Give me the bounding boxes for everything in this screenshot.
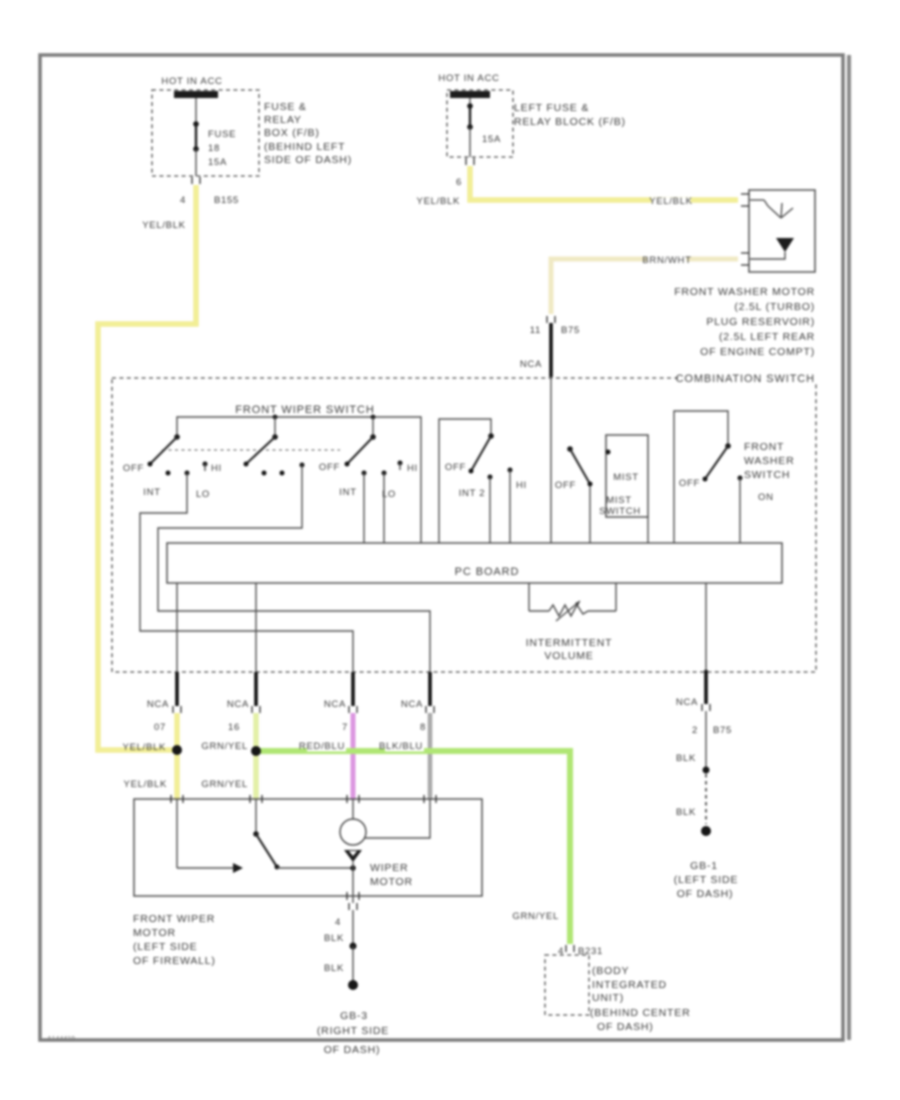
wire mist frame to PC board bbox=[647, 517, 649, 543]
svg-text:FUSE: FUSE bbox=[208, 129, 236, 140]
svg-text:LEFT FUSE &: LEFT FUSE & bbox=[514, 102, 589, 114]
washer OFF label bbox=[679, 478, 700, 489]
svg-text:YEL/BLK: YEL/BLK bbox=[123, 742, 166, 753]
connector at left fuse block bottom bbox=[466, 158, 474, 165]
svg-text:(LEFT SIDE: (LEFT SIDE bbox=[674, 874, 738, 886]
pole 3 INT label bbox=[339, 487, 356, 498]
svg-text:OF DASH): OF DASH) bbox=[324, 1044, 381, 1056]
footer diagram id bbox=[47, 1036, 75, 1043]
svg-text:6: 6 bbox=[456, 177, 462, 188]
svg-text:RELAY: RELAY bbox=[264, 114, 302, 126]
svg-text:B75: B75 bbox=[561, 325, 580, 336]
svg-text:NCA: NCA bbox=[227, 699, 249, 710]
wiper switch common bus wire bbox=[177, 415, 421, 543]
svg-text:(BEHIND LEFT: (BEHIND LEFT bbox=[264, 141, 345, 153]
svg-text:OFF: OFF bbox=[679, 478, 700, 489]
pin 6 label bbox=[456, 177, 462, 188]
pole 1 HI label bbox=[211, 463, 222, 474]
wire label YEL/BLK bbox=[417, 196, 460, 207]
pole 2 contacts bbox=[262, 463, 305, 476]
ground GB-1 text bbox=[674, 860, 738, 900]
svg-text:15A: 15A bbox=[208, 157, 227, 168]
body integrated unit dashed box bbox=[545, 955, 589, 1015]
wire 3 connector bbox=[349, 706, 357, 713]
wire 3 bold segment bbox=[351, 672, 355, 706]
wire 1 YEL/BLK segment bbox=[174, 713, 180, 750]
svg-text:(BODY: (BODY bbox=[592, 965, 629, 977]
svg-text:A144419: A144419 bbox=[47, 1036, 75, 1043]
svg-text:OF FIREWALL): OF FIREWALL) bbox=[133, 955, 216, 967]
ground GB-3 text bbox=[317, 1010, 389, 1056]
wiper switch gang dashed link bbox=[162, 449, 340, 451]
pin 4 connector B155 label bbox=[180, 195, 239, 206]
wire label YEL/BLK (mid) bbox=[649, 196, 692, 207]
body integrated unit text bbox=[590, 965, 690, 1033]
svg-text:2: 2 bbox=[692, 725, 698, 736]
wire 1 connector bbox=[173, 706, 181, 713]
wire 1 bold segment bbox=[175, 672, 179, 706]
svg-text:MIST: MIST bbox=[613, 472, 639, 483]
wire 2 bold segment bbox=[254, 672, 258, 706]
svg-text:4: 4 bbox=[180, 195, 186, 206]
pole 4 HI contact to PC board bbox=[508, 468, 513, 544]
label HOT IN ACC (left fuse block) bbox=[438, 73, 499, 84]
svg-text:LO: LO bbox=[196, 489, 210, 500]
pole 4 HI label bbox=[516, 480, 527, 491]
svg-text:(LEFT SIDE: (LEFT SIDE bbox=[133, 941, 197, 953]
wire label NCA (washer) bbox=[520, 359, 542, 370]
wire washer signal bold segment bbox=[549, 323, 553, 377]
PC board box bbox=[167, 543, 782, 583]
wiper motor bottom pin bbox=[347, 892, 359, 900]
wire 2 GRN/YEL to wiper motor bbox=[253, 751, 259, 800]
svg-text:B231: B231 bbox=[578, 946, 603, 957]
mist switch name text bbox=[599, 495, 641, 517]
svg-text:(2.5L LEFT REAR: (2.5L LEFT REAR bbox=[719, 331, 815, 343]
wiper motor M symbol bbox=[340, 799, 366, 896]
svg-text:OFF: OFF bbox=[445, 462, 466, 473]
wire 2 NCA label bbox=[227, 699, 249, 710]
wire washer signal into switch bbox=[550, 377, 552, 543]
svg-text:GRN/YEL: GRN/YEL bbox=[201, 741, 248, 752]
wire 2 label GRN/YEL bbox=[201, 741, 248, 752]
wire 4 label BLK/BLU bbox=[379, 741, 424, 752]
ground GB-3 bbox=[348, 980, 358, 990]
wiper motor pin 1 bbox=[171, 795, 183, 803]
wiper motor pin 4 bbox=[424, 795, 436, 803]
wiper switch pole 4 frame bbox=[439, 419, 491, 543]
svg-text:YEL/BLK: YEL/BLK bbox=[649, 196, 692, 207]
wire 3 pin 7 label bbox=[342, 722, 348, 733]
svg-text:ON: ON bbox=[758, 492, 774, 503]
svg-text:PC BOARD: PC BOARD bbox=[455, 566, 520, 578]
pole 3 OFF label bbox=[319, 462, 340, 473]
svg-text:NCA: NCA bbox=[676, 697, 698, 708]
wire 4 BLK/BLU segment bbox=[428, 713, 433, 800]
connector at fuse box bottom bbox=[192, 177, 200, 184]
wire 1 NCA label bbox=[147, 699, 169, 710]
intermittent volume potentiometer bbox=[529, 583, 616, 621]
wire mist blade to PC board bbox=[589, 486, 591, 543]
wire 1 from PC board (thin) bbox=[176, 583, 178, 672]
svg-text:WIPER: WIPER bbox=[370, 862, 408, 874]
pole 1 OFF label bbox=[123, 463, 144, 474]
svg-text:BLK/BLU: BLK/BLU bbox=[379, 741, 423, 752]
wire 2 GRN/YEL segment bbox=[253, 713, 259, 751]
GB-1 label BLK (2) bbox=[676, 807, 696, 818]
svg-text:OFF: OFF bbox=[123, 463, 144, 474]
svg-text:(BEHIND CENTER: (BEHIND CENTER bbox=[590, 1007, 690, 1019]
svg-text:(RIGHT SIDE: (RIGHT SIDE bbox=[317, 1025, 389, 1037]
wire 2 pin 16 label bbox=[228, 722, 240, 733]
wiper switch pole 1 blade bbox=[148, 434, 180, 466]
wire GRN to body integrated unit bbox=[256, 751, 570, 944]
svg-text:FRONT WASHER MOTOR: FRONT WASHER MOTOR bbox=[674, 286, 815, 298]
wire BLK segment 2 bbox=[352, 946, 354, 982]
wire BLK segment bbox=[352, 910, 354, 944]
svg-text:OFF: OFF bbox=[319, 462, 340, 473]
front wiper switch label bbox=[235, 404, 374, 416]
svg-text:GB-1: GB-1 bbox=[690, 860, 718, 872]
wire YEL/BLK from fuse F18 down left side to splice bbox=[98, 185, 196, 750]
GB-1 wire BLK segment bbox=[705, 711, 707, 768]
GB-1 label BLK bbox=[676, 753, 696, 764]
mist switch frame bbox=[606, 435, 649, 517]
svg-text:07: 07 bbox=[154, 722, 166, 733]
GB-1 NCA label bbox=[676, 697, 698, 708]
svg-text:NCA: NCA bbox=[324, 699, 346, 710]
svg-text:OF DASH): OF DASH) bbox=[677, 888, 734, 900]
svg-text:B155: B155 bbox=[214, 195, 239, 206]
pole 3 contacts bbox=[362, 461, 403, 476]
svg-text:OF DASH): OF DASH) bbox=[597, 1021, 654, 1033]
svg-text:BRN/WHT: BRN/WHT bbox=[642, 255, 691, 266]
combination switch label bbox=[676, 371, 818, 385]
svg-text:INTEGRATED: INTEGRATED bbox=[592, 979, 667, 991]
wire 4 connector bbox=[426, 706, 434, 713]
wire from pole2 contact to BLK/BLU wire bbox=[158, 465, 430, 672]
svg-text:BLK: BLK bbox=[324, 933, 344, 944]
svg-text:4: 4 bbox=[335, 917, 341, 928]
pole 3 LO label bbox=[382, 489, 396, 500]
svg-text:YEL/BLK: YEL/BLK bbox=[417, 196, 460, 207]
combination switch dashed outline bbox=[112, 378, 816, 672]
wiper motor label bbox=[370, 862, 413, 888]
intermittent volume label bbox=[526, 637, 613, 662]
wire pole3 INT contact to PC board bbox=[363, 473, 365, 543]
svg-text:INT: INT bbox=[143, 487, 160, 498]
label BLK bbox=[324, 933, 344, 944]
svg-text:HOT IN ACC: HOT IN ACC bbox=[438, 73, 499, 84]
fuse & relay box F/B dashed outline bbox=[152, 90, 259, 176]
pole 1 INT label bbox=[143, 487, 160, 498]
fuse value 15A label bbox=[482, 134, 501, 145]
svg-text:FRONT: FRONT bbox=[744, 441, 784, 453]
svg-text:7: 7 bbox=[342, 722, 348, 733]
wiper motor pin 2 bbox=[250, 795, 262, 803]
splice on wire 2 bbox=[251, 746, 261, 756]
svg-text:RELAY BLOCK (F/B): RELAY BLOCK (F/B) bbox=[514, 116, 626, 128]
fuse & relay box name text bbox=[264, 101, 352, 166]
wire 4 pin 8 label bbox=[420, 722, 426, 733]
label BLK (2) bbox=[324, 963, 344, 974]
svg-text:15A: 15A bbox=[482, 134, 501, 145]
wire 1 label YEL/BLK (2) bbox=[124, 779, 167, 790]
svg-text:OF ENGINE COMPT): OF ENGINE COMPT) bbox=[700, 346, 815, 358]
svg-text:(2.5L (TURBO): (2.5L (TURBO) bbox=[734, 301, 815, 313]
svg-text:HI: HI bbox=[516, 480, 527, 491]
svg-text:FUSE &: FUSE & bbox=[264, 101, 307, 113]
front washer switch frame bbox=[674, 411, 728, 543]
wire pole3 LO contact to PC board bbox=[383, 473, 385, 543]
splice on BLK wire bbox=[350, 943, 357, 950]
wire 1 label YEL/BLK bbox=[123, 742, 166, 753]
svg-text:8: 8 bbox=[420, 722, 426, 733]
park switch blade bbox=[253, 799, 279, 870]
svg-text:SIDE OF DASH): SIDE OF DASH) bbox=[264, 154, 352, 166]
wire 3 NCA label bbox=[324, 699, 346, 710]
pole 4 OFF label bbox=[445, 462, 466, 473]
svg-text:INTERMITTENT: INTERMITTENT bbox=[526, 637, 613, 649]
front washer switch blade bbox=[703, 443, 731, 481]
connector below wiper motor bbox=[349, 903, 357, 910]
fuse F18 value label bbox=[208, 129, 236, 168]
PC board label bbox=[455, 566, 520, 578]
front washer motor box bbox=[749, 190, 815, 272]
svg-text:UNIT): UNIT) bbox=[592, 992, 624, 1004]
wire 2 connector bbox=[252, 706, 260, 713]
mist switch blade bbox=[567, 446, 592, 486]
wiper motor internal link wire bbox=[365, 799, 430, 838]
GB-1 wire from PC board (thin) bbox=[705, 583, 707, 670]
svg-text:MIST: MIST bbox=[606, 495, 632, 506]
wire 4 NCA label bbox=[401, 699, 423, 710]
hot bus bar 2 bbox=[450, 91, 490, 98]
svg-text:GB-3: GB-3 bbox=[340, 1010, 368, 1022]
svg-text:VOLUME: VOLUME bbox=[544, 650, 593, 662]
pole 4 contact to PC board bbox=[488, 475, 493, 544]
ground GB-1 bbox=[701, 826, 711, 836]
wiper motor pin 3 bbox=[347, 795, 359, 803]
washer ON label bbox=[758, 492, 774, 503]
wire 2 from PC board (thin) bbox=[255, 583, 257, 672]
mist contact label MIST bbox=[613, 472, 639, 483]
connector B231 bbox=[558, 945, 603, 957]
svg-text:BOX (F/B): BOX (F/B) bbox=[264, 127, 320, 139]
svg-text:HI: HI bbox=[407, 463, 418, 474]
pin 4 label (motor ground) bbox=[335, 917, 341, 928]
wire 3 label RED/BLU bbox=[299, 741, 346, 752]
svg-text:GRN/YEL: GRN/YEL bbox=[512, 911, 559, 922]
washer pump symbol bbox=[750, 200, 794, 259]
wiper switch pole 2 blade bbox=[244, 434, 278, 466]
wire 3 RED/BLU segment bbox=[351, 713, 356, 800]
svg-text:FRONT WIPER: FRONT WIPER bbox=[133, 913, 215, 925]
connector 11 B75 bbox=[530, 316, 580, 336]
washer motor pin 1 bbox=[741, 194, 749, 206]
wire BLK from wiper motor to ground bbox=[352, 896, 354, 903]
label HOT IN ACC (fuse box F/B) bbox=[161, 76, 222, 87]
fuse F18 bbox=[193, 98, 199, 176]
wiper switch pole 4 blade bbox=[469, 433, 494, 473]
left fuse & relay block name text bbox=[514, 102, 626, 128]
wire from pole1 LO contact to RED/BLU wire bbox=[140, 473, 353, 672]
svg-text:BLK: BLK bbox=[676, 753, 696, 764]
svg-text:SWITCH: SWITCH bbox=[744, 469, 790, 481]
svg-text:WASHER: WASHER bbox=[744, 455, 795, 467]
svg-text:SWITCH: SWITCH bbox=[599, 506, 641, 517]
wire 2 label GRN/YEL (2) bbox=[201, 779, 248, 790]
GB-1 wire dashed segment bbox=[705, 774, 707, 824]
svg-text:NCA: NCA bbox=[147, 699, 169, 710]
wire YEL/BLK from fuse to washer motor bbox=[470, 166, 738, 200]
hot bus bar bbox=[174, 91, 218, 98]
svg-text:18: 18 bbox=[208, 143, 220, 154]
svg-text:HOT IN ACC: HOT IN ACC bbox=[161, 76, 222, 87]
washer ON contact to PC board bbox=[738, 476, 743, 544]
wire 1 pin 07 label bbox=[154, 722, 166, 733]
wire 4 bold segment bbox=[428, 672, 432, 706]
wire label YEL/BLK (left) bbox=[142, 220, 185, 231]
wire label GRN/YEL (body unit) bbox=[512, 911, 559, 922]
svg-text:PLUG RESERVOIR): PLUG RESERVOIR) bbox=[706, 316, 815, 328]
mist OFF label bbox=[555, 480, 576, 491]
pole 3 HI label bbox=[407, 463, 418, 474]
svg-text:NCA: NCA bbox=[401, 699, 423, 710]
svg-text:COMBINATION SWITCH: COMBINATION SWITCH bbox=[676, 373, 815, 385]
svg-text:BLK: BLK bbox=[324, 963, 344, 974]
pole 4 INT 2 label bbox=[459, 488, 486, 499]
front wiper motor box bbox=[134, 799, 482, 896]
front wiper motor name text bbox=[133, 913, 216, 967]
pole 1 contacts INT LO HI bbox=[166, 462, 208, 476]
wire BRN/WHT from washer motor to switch bbox=[551, 259, 738, 314]
front washer motor name text bbox=[674, 286, 815, 358]
front washer switch name text bbox=[744, 441, 795, 481]
GB-1 wire bold segment bbox=[704, 670, 708, 704]
svg-text:YEL/BLK: YEL/BLK bbox=[142, 220, 185, 231]
svg-text:MOTOR: MOTOR bbox=[133, 927, 176, 939]
svg-text:NCA: NCA bbox=[520, 359, 542, 370]
svg-text:11: 11 bbox=[530, 325, 541, 336]
svg-text:BLK: BLK bbox=[676, 807, 696, 818]
svg-text:RED/BLU: RED/BLU bbox=[299, 741, 345, 752]
park switch wire to motor bbox=[277, 865, 356, 871]
wire 1 YEL/BLK to wiper motor bbox=[174, 750, 180, 800]
svg-text:OFF: OFF bbox=[555, 480, 576, 491]
svg-text:HI: HI bbox=[211, 463, 222, 474]
left fuse & relay block dashed outline bbox=[447, 90, 513, 157]
splice on wire 1 bbox=[172, 745, 182, 755]
GB-1 connector 2 B75 bbox=[692, 704, 732, 736]
pole 1 LO label bbox=[196, 489, 210, 500]
svg-text:GRN/YEL: GRN/YEL bbox=[201, 779, 248, 790]
svg-text:FRONT WIPER SWITCH: FRONT WIPER SWITCH bbox=[235, 404, 374, 416]
splice on GB-1 wire bbox=[703, 767, 710, 774]
svg-text:YEL/BLK: YEL/BLK bbox=[124, 779, 167, 790]
svg-text:MOTOR: MOTOR bbox=[370, 876, 413, 888]
svg-text:B75: B75 bbox=[713, 725, 732, 736]
fuse 15A bbox=[467, 98, 473, 157]
wire label BRN/WHT bbox=[642, 255, 691, 266]
wiper switch pole 3 blade bbox=[345, 434, 376, 466]
park switch fixed contact bbox=[177, 799, 243, 873]
svg-text:INT 2: INT 2 bbox=[459, 488, 486, 499]
svg-text:16: 16 bbox=[228, 722, 240, 733]
svg-text:INT: INT bbox=[339, 487, 356, 498]
washer motor pin 2 bbox=[741, 253, 749, 265]
